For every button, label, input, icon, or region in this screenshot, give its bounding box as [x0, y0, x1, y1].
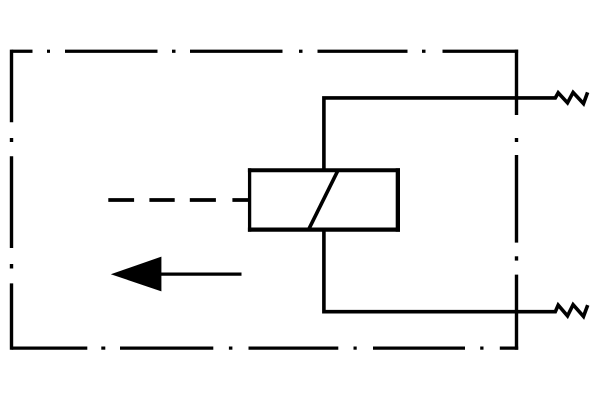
pilot line (dashed) to body — [108, 198, 249, 202]
slash inside body — [309, 170, 338, 229]
enclosure boundary (dash-dot frame), top side — [12, 50, 519, 53]
enclosure boundary, right side — [515, 50, 518, 350]
valve/component body (rectangle), top edge — [248, 168, 400, 172]
flow arrow head — [111, 257, 162, 292]
wire: top lead with terminal squiggle — [324, 92, 588, 172]
enclosure boundary, left side — [10, 50, 13, 350]
body right edge — [396, 168, 400, 231]
body bottom edge — [248, 228, 400, 232]
body left edge — [248, 168, 251, 231]
flow arrow shaft — [158, 272, 242, 275]
enclosure boundary, bottom side — [12, 347, 519, 350]
wire: bottom lead with terminal squiggle — [324, 228, 588, 317]
